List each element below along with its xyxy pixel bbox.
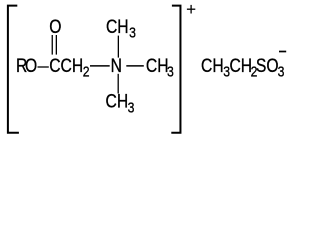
- svg-text:CH: CH: [146, 55, 169, 77]
- svg-text:CH: CH: [230, 55, 253, 77]
- left bracket: [8, 6, 19, 133]
- svg-text:CH: CH: [201, 55, 224, 77]
- svg-text:O: O: [25, 55, 37, 77]
- svg-text:CH: CH: [106, 90, 129, 112]
- svg-text:CCH: CCH: [49, 55, 83, 77]
- bond RO-C: [38, 66, 49, 68]
- svg-text:3: 3: [128, 99, 135, 115]
- svg-text:3: 3: [278, 64, 285, 80]
- svg-text:CH: CH: [106, 16, 129, 38]
- svg-text:SO: SO: [256, 55, 279, 77]
- bond N-CH3 top: [117, 36, 119, 58]
- bond CH2-N: [90, 65, 110, 67]
- svg-text:N: N: [111, 55, 122, 77]
- double bond C=O: [52, 35, 56, 55]
- svg-text:3: 3: [167, 64, 174, 80]
- plus charge: [187, 5, 195, 14]
- svg-text:O: O: [49, 16, 61, 38]
- bond N-CH3 right: [126, 65, 144, 67]
- svg-text:2: 2: [83, 64, 90, 80]
- bond N-CH3 bottom: [117, 74, 119, 94]
- svg-text:3: 3: [129, 25, 136, 41]
- minus charge: [279, 51, 286, 53]
- right bracket: [171, 6, 180, 133]
